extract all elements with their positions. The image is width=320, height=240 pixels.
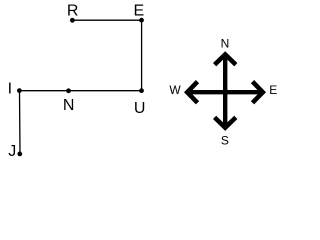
wire E-U <box>141 20 143 91</box>
svg-text:W: W <box>169 83 181 97</box>
svg-text:E: E <box>269 83 277 97</box>
wire R-E <box>72 19 141 21</box>
svg-text:J: J <box>8 143 16 160</box>
svg-text:U: U <box>134 100 146 117</box>
svg-text:S: S <box>221 133 229 147</box>
svg-text:E: E <box>133 2 144 19</box>
node I <box>8 81 22 98</box>
node E <box>133 2 144 22</box>
svg-text:I: I <box>8 81 12 98</box>
compass arrowhead east <box>253 82 263 103</box>
svg-text:R: R <box>67 2 79 19</box>
compass shaft vertical <box>223 56 227 126</box>
svg-text:N: N <box>63 97 75 114</box>
compass arrowhead west <box>187 82 197 103</box>
compass rose <box>187 54 263 127</box>
compass shaft horizontal <box>187 90 263 94</box>
svg-text:N: N <box>221 37 230 51</box>
compass arrowhead south <box>215 117 236 127</box>
node J <box>8 143 22 160</box>
node N <box>63 88 75 114</box>
compass arrowhead north <box>215 54 236 64</box>
node R <box>67 2 79 22</box>
wire I-J <box>19 91 22 154</box>
node U <box>134 88 146 117</box>
wire I-N-U <box>19 90 141 92</box>
